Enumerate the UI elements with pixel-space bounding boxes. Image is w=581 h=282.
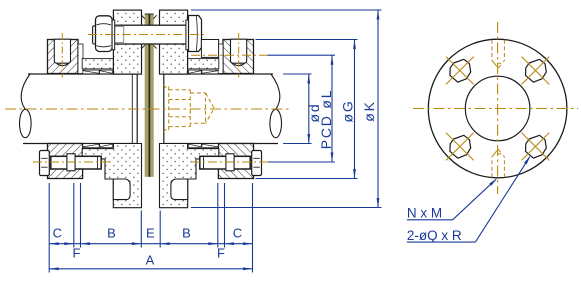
svg-text:øK: øK xyxy=(361,100,377,122)
svg-text:F: F xyxy=(217,246,225,261)
svg-text:C: C xyxy=(233,226,242,241)
svg-text:E: E xyxy=(146,226,155,241)
svg-text:F: F xyxy=(73,246,81,261)
svg-text:PCD øL: PCD øL xyxy=(318,89,334,150)
svg-text:B: B xyxy=(182,226,191,241)
svg-text:B: B xyxy=(107,226,116,241)
svg-text:N x M: N x M xyxy=(407,206,442,221)
svg-text:A: A xyxy=(146,253,155,268)
svg-text:2-øQ x R: 2-øQ x R xyxy=(407,228,462,243)
svg-text:C: C xyxy=(53,226,62,241)
svg-text:øG: øG xyxy=(339,99,355,122)
